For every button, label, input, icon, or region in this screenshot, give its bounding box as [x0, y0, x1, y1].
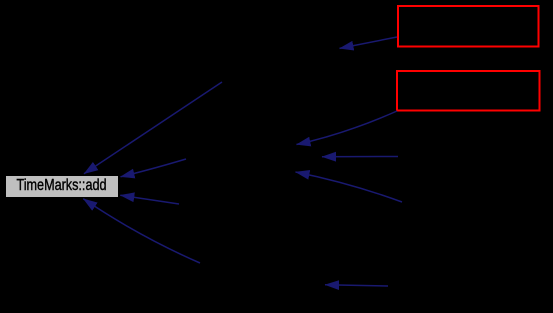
edge bottom into hidden node M4	[325, 285, 388, 286]
node box red R1 (top right, truncated caller)	[398, 6, 539, 47]
node TimeMarks::add (grey focus node)	[6, 176, 119, 198]
edge from R1 to hidden node M1	[340, 37, 398, 48]
edge from hidden node M1 to TimeMarks::add (long diagonal)	[84, 82, 222, 174]
edge horizontal into hidden node M2b	[322, 156, 398, 158]
svg-text:TimeMarks::add: TimeMarks::add	[17, 177, 107, 194]
node box red R2 (second truncated caller)	[397, 71, 540, 111]
edge from hidden node M2 to TimeMarks::add	[121, 159, 187, 177]
edge from lower right hidden node into M2	[296, 172, 403, 202]
edge from hidden node M3 to TimeMarks::add	[120, 195, 179, 204]
edge from R2 to hidden node M2	[297, 111, 398, 145]
edge curved from hidden node M4 to TimeMarks::add bottom	[83, 199, 200, 263]
